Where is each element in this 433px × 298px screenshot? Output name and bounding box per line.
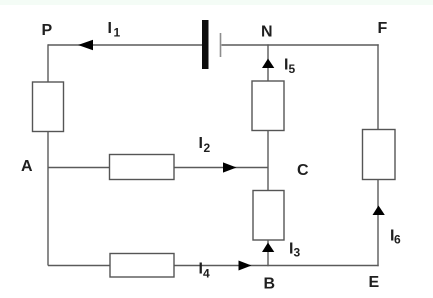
svg-text:2: 2 bbox=[204, 141, 211, 155]
wire: middle branch N down to resistor bbox=[267, 44, 269, 81]
arrow I3 (pointing up above B) bbox=[262, 243, 274, 253]
wire: right branch F down to resistor bbox=[377, 44, 379, 129]
svg-text:I: I bbox=[108, 20, 112, 37]
arrow I6 (pointing up above E) bbox=[373, 206, 385, 216]
svg-text:N: N bbox=[261, 24, 273, 41]
svg-text:3: 3 bbox=[294, 246, 301, 260]
resistor R4 (between E and F) bbox=[363, 130, 396, 180]
arrow I4 (pointing right on bottom wire) bbox=[239, 261, 252, 271]
arrow I5 (pointing up below N) bbox=[262, 59, 274, 69]
wire: left branch P down to resistor bbox=[47, 44, 49, 82]
svg-text:C: C bbox=[297, 162, 309, 179]
svg-text:B: B bbox=[264, 276, 276, 293]
svg-text:I: I bbox=[199, 135, 203, 152]
wire: middle branch resistor down to B bbox=[267, 240, 269, 266]
svg-text:P: P bbox=[42, 22, 53, 39]
svg-text:6: 6 bbox=[394, 233, 401, 247]
top edge tint strip bbox=[0, 0, 433, 5]
wire: top segment P to battery bbox=[48, 44, 202, 46]
wire: top segment battery to N bbox=[222, 44, 269, 46]
wire: middle branch between resistors through C bbox=[267, 131, 269, 191]
battery B1 long plate bbox=[202, 20, 209, 69]
wire: right branch resistor down to E bbox=[377, 180, 379, 267]
svg-text:A: A bbox=[21, 158, 33, 175]
resistor R2 (between N and C) bbox=[252, 81, 284, 131]
svg-text:4: 4 bbox=[203, 267, 210, 281]
arrow I1 (pointing left on top wire) bbox=[78, 40, 93, 50]
wire: middle horizontal A to C bbox=[48, 167, 268, 169]
resistor R6 (bottom between A and B) bbox=[110, 254, 174, 278]
svg-text:F: F bbox=[378, 20, 388, 37]
resistor R1 (between P and A) bbox=[33, 82, 64, 132]
resistor R5 (between A and C) bbox=[110, 155, 175, 180]
arrow I2 (pointing right on middle wire) bbox=[223, 162, 237, 172]
svg-text:5: 5 bbox=[289, 62, 296, 76]
wire: left branch resistor through A down to bottom bbox=[47, 132, 49, 266]
resistor R3 (between C and B) bbox=[253, 191, 284, 241]
wire: top segment N to F bbox=[268, 44, 379, 46]
battery B1 short plate bbox=[220, 33, 222, 57]
svg-text:1: 1 bbox=[114, 26, 121, 40]
wire: bottom segment A' to B to E bbox=[48, 265, 379, 267]
svg-text:E: E bbox=[369, 274, 380, 291]
